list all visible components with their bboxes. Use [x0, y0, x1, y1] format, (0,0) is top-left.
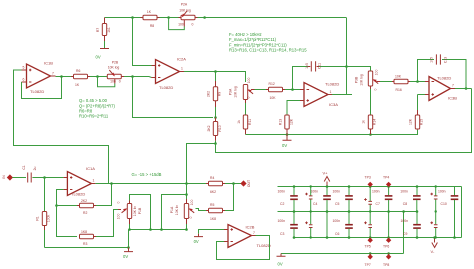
- junction PSU V- bus TP6: [387, 236, 390, 239]
- svg-text:10K log: 10K log: [360, 74, 364, 86]
- wire junction down to R1: [44, 178, 46, 212]
- resistor R16: [392, 75, 410, 93]
- wire IC1B output to R6: [56, 76, 72, 78]
- svg-text:1: 1: [93, 178, 95, 182]
- wire pot ends bus: [129, 229, 187, 231]
- wire IC3A + input to R13: [287, 101, 300, 116]
- svg-text:R13: R13: [279, 119, 283, 125]
- junction PSU V- bus TP5: [369, 236, 372, 239]
- svg-text:R4: R4: [210, 176, 214, 180]
- capacitor small electrolytic col x435.7 row2: [434, 212, 438, 238]
- svg-text:0V: 0V: [278, 261, 283, 266]
- svg-text:1: 1: [181, 67, 183, 71]
- ground 0V under R7: [96, 48, 110, 60]
- junction PSU mid bus C2: [293, 210, 296, 213]
- resistor R5: [196, 203, 226, 221]
- wire P2B to IC2A - input: [124, 77, 152, 78]
- svg-text:R12: R12: [269, 82, 275, 86]
- wire top bus P2A to vertical: [198, 17, 347, 19]
- junction main x186.9: [185, 182, 188, 185]
- junction PSU mid bus C5: [348, 210, 351, 213]
- test point TP7: [365, 254, 373, 268]
- note text F formulas: [229, 32, 307, 52]
- wire IC2B + input to ground: [199, 230, 225, 234]
- svg-text:R7: R7: [96, 28, 100, 32]
- potentiometer P3A: [229, 78, 255, 103]
- svg-text:R16: R16: [396, 88, 402, 92]
- test point TP6: [383, 238, 391, 249]
- svg-text:TL082D: TL082D: [325, 82, 339, 87]
- wire bus down to ground bus: [128, 230, 130, 248]
- svg-text:C4: C4: [313, 202, 317, 206]
- svg-text:100: 100: [110, 80, 116, 84]
- wire node down to R3: [57, 206, 78, 237]
- svg-text:TP8: TP8: [383, 263, 389, 267]
- svg-text:R13=R16, C11=C13, R11=R14, R13: R13=R16, C11=C13, R11=R14, R13=R15: [229, 47, 307, 52]
- PSU: wire mid ground bus: [278, 211, 418, 213]
- wire IN to C1: [12, 177, 26, 179]
- svg-text:2K2: 2K2: [81, 199, 87, 203]
- svg-text:G= -15 > +15dB: G= -15 > +15dB: [132, 172, 162, 177]
- potentiometer P1A: [170, 199, 194, 230]
- capacitor C5: [333, 187, 353, 212]
- capacitor C1: [22, 165, 37, 182]
- svg-text:1k1: 1k1: [107, 27, 111, 33]
- svg-text:1K: 1K: [147, 10, 152, 14]
- svg-text:100: 100: [190, 200, 194, 206]
- junction bus P1A bottom: [185, 228, 188, 231]
- svg-text:12K: 12K: [409, 118, 413, 125]
- svg-text:0V: 0V: [194, 239, 199, 244]
- svg-text:C13: C13: [444, 57, 448, 63]
- svg-text:IN: IN: [2, 175, 6, 179]
- svg-text:10K log: 10K log: [179, 8, 191, 12]
- wire R6 to P2B: [90, 76, 107, 78]
- svg-text:1n5: 1n5: [430, 57, 434, 63]
- svg-text:R1: R1: [36, 216, 40, 220]
- svg-text:0: 0: [247, 96, 251, 98]
- svg-text:C9: C9: [403, 232, 407, 236]
- svg-text:7: 7: [253, 231, 255, 235]
- junction mini cap dots: [310, 185, 312, 187]
- junction IC3A - node: [291, 88, 294, 91]
- PSU: wire V+ top bus: [278, 186, 462, 188]
- capacitor C13: [430, 54, 448, 64]
- wire P3A bottom to R11: [245, 103, 247, 115]
- capacitor small electrolytic col x370.2 row1: [368, 187, 372, 212]
- svg-text:V-: V-: [431, 249, 435, 254]
- junction top bus x168.6: [167, 16, 170, 19]
- svg-text:P1A: P1A: [170, 206, 174, 213]
- capacitor C6: [333, 212, 353, 238]
- svg-text:IC2B: IC2B: [246, 224, 255, 229]
- svg-text:TP4: TP4: [383, 176, 389, 180]
- svg-text:7: 7: [52, 71, 54, 75]
- op-amp IC3A: [300, 82, 339, 107]
- svg-text:10K: 10K: [395, 75, 402, 79]
- svg-text:100n: 100n: [372, 189, 380, 193]
- svg-text:2u: 2u: [33, 167, 37, 171]
- svg-text:R10: R10: [218, 125, 222, 131]
- svg-text:C10: C10: [441, 202, 447, 206]
- svg-text:IC1B: IC1B: [44, 61, 53, 66]
- capacitor C3: [278, 212, 298, 238]
- note text Q formulas: [79, 98, 115, 119]
- svg-text:5: 5: [23, 66, 25, 70]
- svg-text:P3B: P3B: [355, 76, 359, 83]
- svg-text:0: 0: [189, 216, 193, 218]
- svg-text:0: 0: [192, 22, 194, 26]
- svg-text:100k: 100k: [47, 215, 51, 223]
- wire P1A top tap: [186, 184, 188, 200]
- wire C11 right to node: [319, 66, 347, 68]
- resistor R4: [206, 176, 225, 194]
- svg-text:IC3B: IC3B: [448, 95, 457, 100]
- PSU: wire V- bus: [294, 237, 462, 239]
- op-amp IC2B: [224, 224, 271, 248]
- svg-text:12K: 12K: [290, 118, 294, 125]
- PSU: wire gnd riser: [403, 212, 405, 254]
- svg-text:TP6: TP6: [383, 245, 389, 249]
- svg-text:R3: R3: [83, 242, 87, 246]
- junction P1A tap branch: [185, 193, 188, 196]
- capacitor C11: [305, 61, 322, 71]
- capacitor C4: [311, 187, 331, 238]
- potentiometer P1B: [116, 201, 142, 230]
- resistor R3: [80, 210, 122, 247]
- svg-text:TL082D: TL082D: [30, 89, 44, 94]
- svg-text:1K8: 1K8: [210, 217, 216, 221]
- svg-text:100n: 100n: [333, 219, 341, 223]
- svg-text:100n: 100n: [311, 189, 319, 193]
- ground 0V PSU: [277, 254, 286, 267]
- resistor R13: [279, 115, 294, 135]
- junction R16 C13 node: [416, 80, 419, 83]
- wire IC3B output: [455, 88, 472, 90]
- resistor R1: [36, 212, 51, 248]
- svg-text:R10=R9=2*R11: R10=R9=2*R11: [79, 114, 109, 119]
- junction PSU mid bus riser: [402, 210, 405, 213]
- wire P3A wiper to R12: [255, 89, 267, 91]
- junction gnd bus R14: [369, 133, 372, 136]
- svg-text:IC2A: IC2A: [177, 56, 186, 61]
- wire ground bus R11 R13 R14 R15: [246, 130, 418, 135]
- junction PSU top bus C5: [348, 185, 351, 188]
- wire IC1B feedback loop: [22, 77, 62, 99]
- capacitor C9: [401, 212, 421, 238]
- svg-text:C3: C3: [280, 232, 284, 236]
- wire node right to P3B top: [347, 67, 371, 72]
- svg-text:100n: 100n: [333, 189, 341, 193]
- junction PSU V- bus V-: [433, 236, 436, 239]
- junction IC1B feedback: [60, 75, 63, 78]
- junction gnd bus R13: [286, 133, 289, 136]
- junction bus branch leg: [160, 228, 163, 231]
- ground 0V at pot bus: [123, 248, 133, 260]
- potentiometer P3B: [355, 70, 381, 91]
- wire IC2A - node down to R9 bottom: [133, 77, 214, 118]
- svg-text:10K log: 10K log: [234, 86, 238, 98]
- supply V- symbol: [431, 238, 438, 254]
- wire P3B bottom to R14: [370, 89, 372, 115]
- potentiometer P2A: [178, 3, 197, 27]
- PSU: wire gnd bus bottom: [281, 253, 404, 255]
- wire R12 to IC3A - input: [285, 89, 300, 91]
- svg-text:TP5: TP5: [365, 245, 371, 249]
- svg-text:0: 0: [119, 80, 121, 84]
- junction ground bus: [127, 246, 130, 249]
- svg-text:100n: 100n: [401, 219, 409, 223]
- svg-text:R5: R5: [210, 203, 214, 207]
- svg-text:TL082D: TL082D: [159, 85, 173, 90]
- resistor R15: [409, 95, 424, 130]
- svg-text:1: 1: [330, 90, 332, 94]
- junction IC2A - node: [131, 75, 134, 78]
- junction C13 right at output: [465, 87, 468, 90]
- svg-text:R14: R14: [373, 119, 377, 125]
- junction top bus x204.6: [203, 16, 206, 19]
- wire P3B wiper to R16: [380, 81, 392, 83]
- svg-text:100n: 100n: [278, 219, 286, 223]
- wire C11 feedback loop left leg: [293, 67, 309, 90]
- resistor R10: [207, 118, 222, 141]
- svg-text:C1: C1: [22, 165, 26, 169]
- svg-text:IC3A: IC3A: [329, 102, 338, 107]
- junction top bus x133: [131, 16, 134, 19]
- pad IN: [2, 174, 13, 180]
- capacitor small electrolytic col x310.7 row2: [309, 212, 313, 238]
- junction R10 corner: [214, 142, 217, 145]
- svg-text:TL082D: TL082D: [71, 192, 85, 197]
- op-amp IC1A: [63, 166, 95, 197]
- svg-text:P3A: P3A: [229, 88, 233, 95]
- svg-text:C11: C11: [318, 63, 322, 69]
- junction PSU top bus TP3: [369, 185, 372, 188]
- test point TP3: [365, 176, 373, 188]
- op-amp IC3B: [425, 75, 457, 100]
- wire node down to IC3A output: [347, 67, 353, 95]
- junction PSU mid bus C7: [387, 210, 390, 213]
- wire P2A wiper loop: [169, 18, 185, 30]
- svg-text:R15: R15: [420, 119, 424, 125]
- svg-text:100: 100: [375, 70, 379, 76]
- junction PSU V- bus C9: [416, 236, 419, 239]
- svg-text:OUT: OUT: [247, 180, 251, 187]
- junction OUT node: [232, 182, 235, 185]
- wire vertical top bus to C11 node: [346, 18, 348, 67]
- wire IC1B + input from IC1A output: [14, 70, 109, 184]
- svg-text:2K2: 2K2: [207, 91, 211, 97]
- svg-text:6: 6: [23, 78, 25, 82]
- potentiometer P2B: [107, 61, 124, 84]
- wire IC1A - input to R2 node: [57, 190, 64, 206]
- svg-text:P2B: P2B: [112, 61, 119, 65]
- junction C11 output node: [345, 65, 348, 68]
- svg-text:100n: 100n: [438, 189, 446, 193]
- junction PSU mid bus C9: [416, 210, 419, 213]
- capacitor C7: [372, 187, 392, 238]
- svg-text:V+: V+: [323, 170, 329, 175]
- junction bus P1B loop: [149, 228, 152, 231]
- wire top bus R8 to P2A: [160, 17, 179, 19]
- junction main x111: [110, 182, 113, 185]
- wire R2 to output: [96, 184, 112, 206]
- wire C13 feedback loop: [418, 60, 467, 89]
- resistor R2: [77, 199, 96, 215]
- svg-text:IC1A: IC1A: [86, 166, 95, 171]
- svg-text:0V: 0V: [282, 143, 287, 148]
- wire ground bus R1: [45, 247, 129, 249]
- wire R15 to IC3B + input: [418, 94, 426, 96]
- junction PSU V- bus C4: [326, 236, 329, 239]
- wire R4 to OUT: [225, 183, 241, 185]
- svg-text:R9: R9: [218, 92, 222, 96]
- wire R10 bottom to P1A-top tap: [187, 141, 216, 184]
- junction R9 bottom: [214, 116, 217, 119]
- svg-text:C7: C7: [376, 202, 380, 206]
- svg-text:R6: R6: [76, 69, 80, 73]
- svg-text:R11: R11: [248, 119, 252, 125]
- junction bus P1B bottom: [128, 228, 131, 231]
- capacitor C8: [400, 187, 420, 212]
- svg-text:TP7: TP7: [365, 263, 371, 267]
- junction PSU V- bus C10: [453, 236, 456, 239]
- svg-text:100: 100: [178, 22, 184, 26]
- junction R2 R3 node: [55, 204, 58, 207]
- supply V+ symbol: [323, 170, 330, 186]
- wire R16 to IC3B - input: [410, 81, 425, 83]
- svg-text:P1B: P1B: [138, 207, 142, 214]
- junction R9 top: [214, 70, 217, 73]
- wire IC1A output main: [95, 183, 206, 185]
- junction PSU top bus C4: [326, 185, 329, 188]
- junction PSU gnd bus TP7: [369, 252, 372, 255]
- junction PSU top bus TP4: [387, 185, 390, 188]
- svg-text:10K: 10K: [270, 96, 277, 100]
- junction PSU V- bus C6: [348, 236, 351, 239]
- svg-text:TL082D: TL082D: [257, 243, 271, 248]
- svg-text:100: 100: [247, 78, 251, 84]
- wire R10 corner to IC3B output (long feedback): [216, 89, 472, 153]
- svg-text:10K lin: 10K lin: [175, 205, 179, 215]
- resistor R6: [71, 69, 90, 87]
- capacitor small electrolytic col x435.7 row1: [434, 187, 438, 212]
- junction PSU mid bus C4: [326, 210, 329, 213]
- capacitor small electrolytic col x310.7 row1: [309, 187, 313, 212]
- resistor R11: [237, 115, 252, 135]
- junction PSU V- bus C3: [293, 236, 296, 239]
- pad OUT: [240, 180, 251, 187]
- wire vertical x133 to IC2A + input: [133, 18, 152, 66]
- wire C1 to IC1A + input: [32, 177, 63, 179]
- svg-text:2K2: 2K2: [207, 125, 211, 131]
- capacitor small electrolytic col x370.2 row2: [368, 212, 372, 238]
- svg-text:7: 7: [452, 83, 454, 87]
- svg-text:0: 0: [374, 88, 378, 90]
- ground 0V under R13: [282, 135, 292, 148]
- svg-text:1K8: 1K8: [81, 230, 87, 234]
- svg-text:100: 100: [116, 214, 120, 220]
- svg-text:1k: 1k: [237, 120, 241, 124]
- svg-text:1k: 1k: [362, 120, 366, 124]
- test point TP5: [365, 238, 373, 249]
- wire R2 left: [57, 205, 78, 207]
- svg-text:0V: 0V: [123, 254, 128, 259]
- junction PSU top bus C2: [293, 185, 296, 188]
- svg-text:R8: R8: [150, 24, 154, 28]
- svg-text:1n5: 1n5: [305, 63, 309, 69]
- polarity marks: [305, 193, 433, 224]
- svg-text:C5: C5: [335, 202, 339, 206]
- wire IC2A output to P3A: [184, 72, 246, 83]
- op-amp IC1B: [22, 61, 56, 94]
- svg-text:R2: R2: [83, 211, 87, 215]
- resistor R9: [207, 72, 222, 118]
- svg-text:Q= 0.45 > 5.00: Q= 0.45 > 5.00: [79, 98, 108, 103]
- ground 0V at IC2B: [194, 234, 203, 244]
- wire top bus R7 to R8: [105, 17, 141, 19]
- svg-text:6K2: 6K2: [210, 190, 216, 194]
- resistor R8: [141, 10, 160, 28]
- PSU: wire right edge: [461, 187, 463, 238]
- svg-text:100n: 100n: [400, 189, 408, 193]
- svg-text:C8: C8: [403, 202, 407, 206]
- wire P2B wiper loop: [98, 77, 115, 87]
- test point TP4: [383, 176, 391, 188]
- junction PSU top bus C8: [416, 185, 419, 188]
- resistor R7: [96, 18, 111, 49]
- svg-text:C2: C2: [280, 202, 284, 206]
- wire OUT node down to R5: [225, 184, 234, 211]
- svg-text:C6: C6: [335, 232, 339, 236]
- junction R1 top: [43, 176, 46, 179]
- capacitor C2: [278, 187, 298, 212]
- wire IC2B feedback loop: [217, 236, 270, 260]
- junction P2B left: [96, 75, 99, 78]
- wire branch to left leg: [162, 195, 187, 230]
- resistor R12: [266, 82, 285, 100]
- resistor R14: [362, 115, 377, 135]
- svg-text:10K lin: 10K lin: [133, 206, 137, 216]
- wire IC3A output: [332, 94, 347, 96]
- test point TP8: [383, 254, 391, 268]
- wire P1B top loop: [130, 195, 151, 230]
- svg-text:0: 0: [116, 201, 120, 203]
- capacitor C10: [438, 187, 458, 238]
- svg-text:0V: 0V: [96, 55, 101, 60]
- svg-text:100n: 100n: [278, 189, 286, 193]
- svg-text:10K log: 10K log: [108, 66, 120, 70]
- op-amp IC2A: [152, 56, 187, 90]
- junction PSU gnd bus TP8: [387, 252, 390, 255]
- svg-text:P2A: P2A: [181, 3, 188, 7]
- svg-text:TP3: TP3: [365, 176, 371, 180]
- svg-text:TL082D: TL082D: [437, 75, 451, 80]
- svg-text:1K: 1K: [75, 83, 80, 87]
